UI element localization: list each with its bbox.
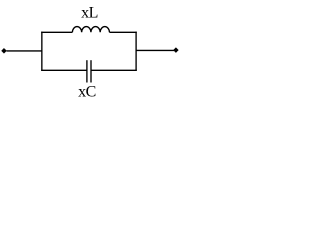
wire: left terminal to left junction	[7, 50, 42, 52]
wire: top edge left segment	[41, 31, 72, 33]
svg-text:xC: xC	[78, 83, 96, 100]
wire: top edge right segment	[109, 31, 136, 33]
wire: left vertical junction	[41, 32, 43, 71]
svg-text:xL: xL	[81, 5, 98, 22]
terminal node right	[173, 48, 178, 53]
inductor xL	[72, 27, 109, 33]
wire: right vertical junction	[135, 32, 137, 71]
wire: bottom edge left segment	[41, 69, 87, 71]
wire: right junction to right terminal	[136, 49, 174, 51]
capacitor xC	[87, 60, 91, 82]
terminal node left	[1, 48, 6, 53]
wire: bottom edge right segment	[91, 69, 137, 71]
